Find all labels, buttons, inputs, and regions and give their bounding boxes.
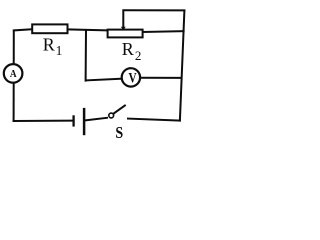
label S [115,124,123,142]
svg-text:R: R [122,39,134,59]
wire junction branch down to voltmeter [86,30,123,81]
wire left vertical [13,31,15,122]
svg-text:2: 2 [135,48,142,63]
wire top left [14,29,33,30]
svg-text:1: 1 [56,43,63,58]
switch S [109,105,126,118]
ammeter A [4,64,23,83]
wire bottom left to battery [14,120,73,122]
wire battery to switch [85,118,107,121]
battery cell [74,108,85,135]
resistor R1 [32,24,67,33]
svg-text:A: A [10,69,17,81]
wire right vertical [180,10,185,120]
voltmeter V [122,68,140,86]
svg-text:V: V [129,69,137,86]
wire rheostat slider to top right [123,10,184,29]
svg-text:R: R [43,35,55,55]
label R1 [43,35,63,59]
wire R1 to R2 [68,28,107,31]
wire switch right to corner [128,119,180,121]
wire R2 right [143,30,184,33]
label R2 [122,39,142,63]
rheostat R2 [108,27,143,38]
wire voltmeter right [140,77,181,79]
svg-text:S: S [115,124,123,142]
